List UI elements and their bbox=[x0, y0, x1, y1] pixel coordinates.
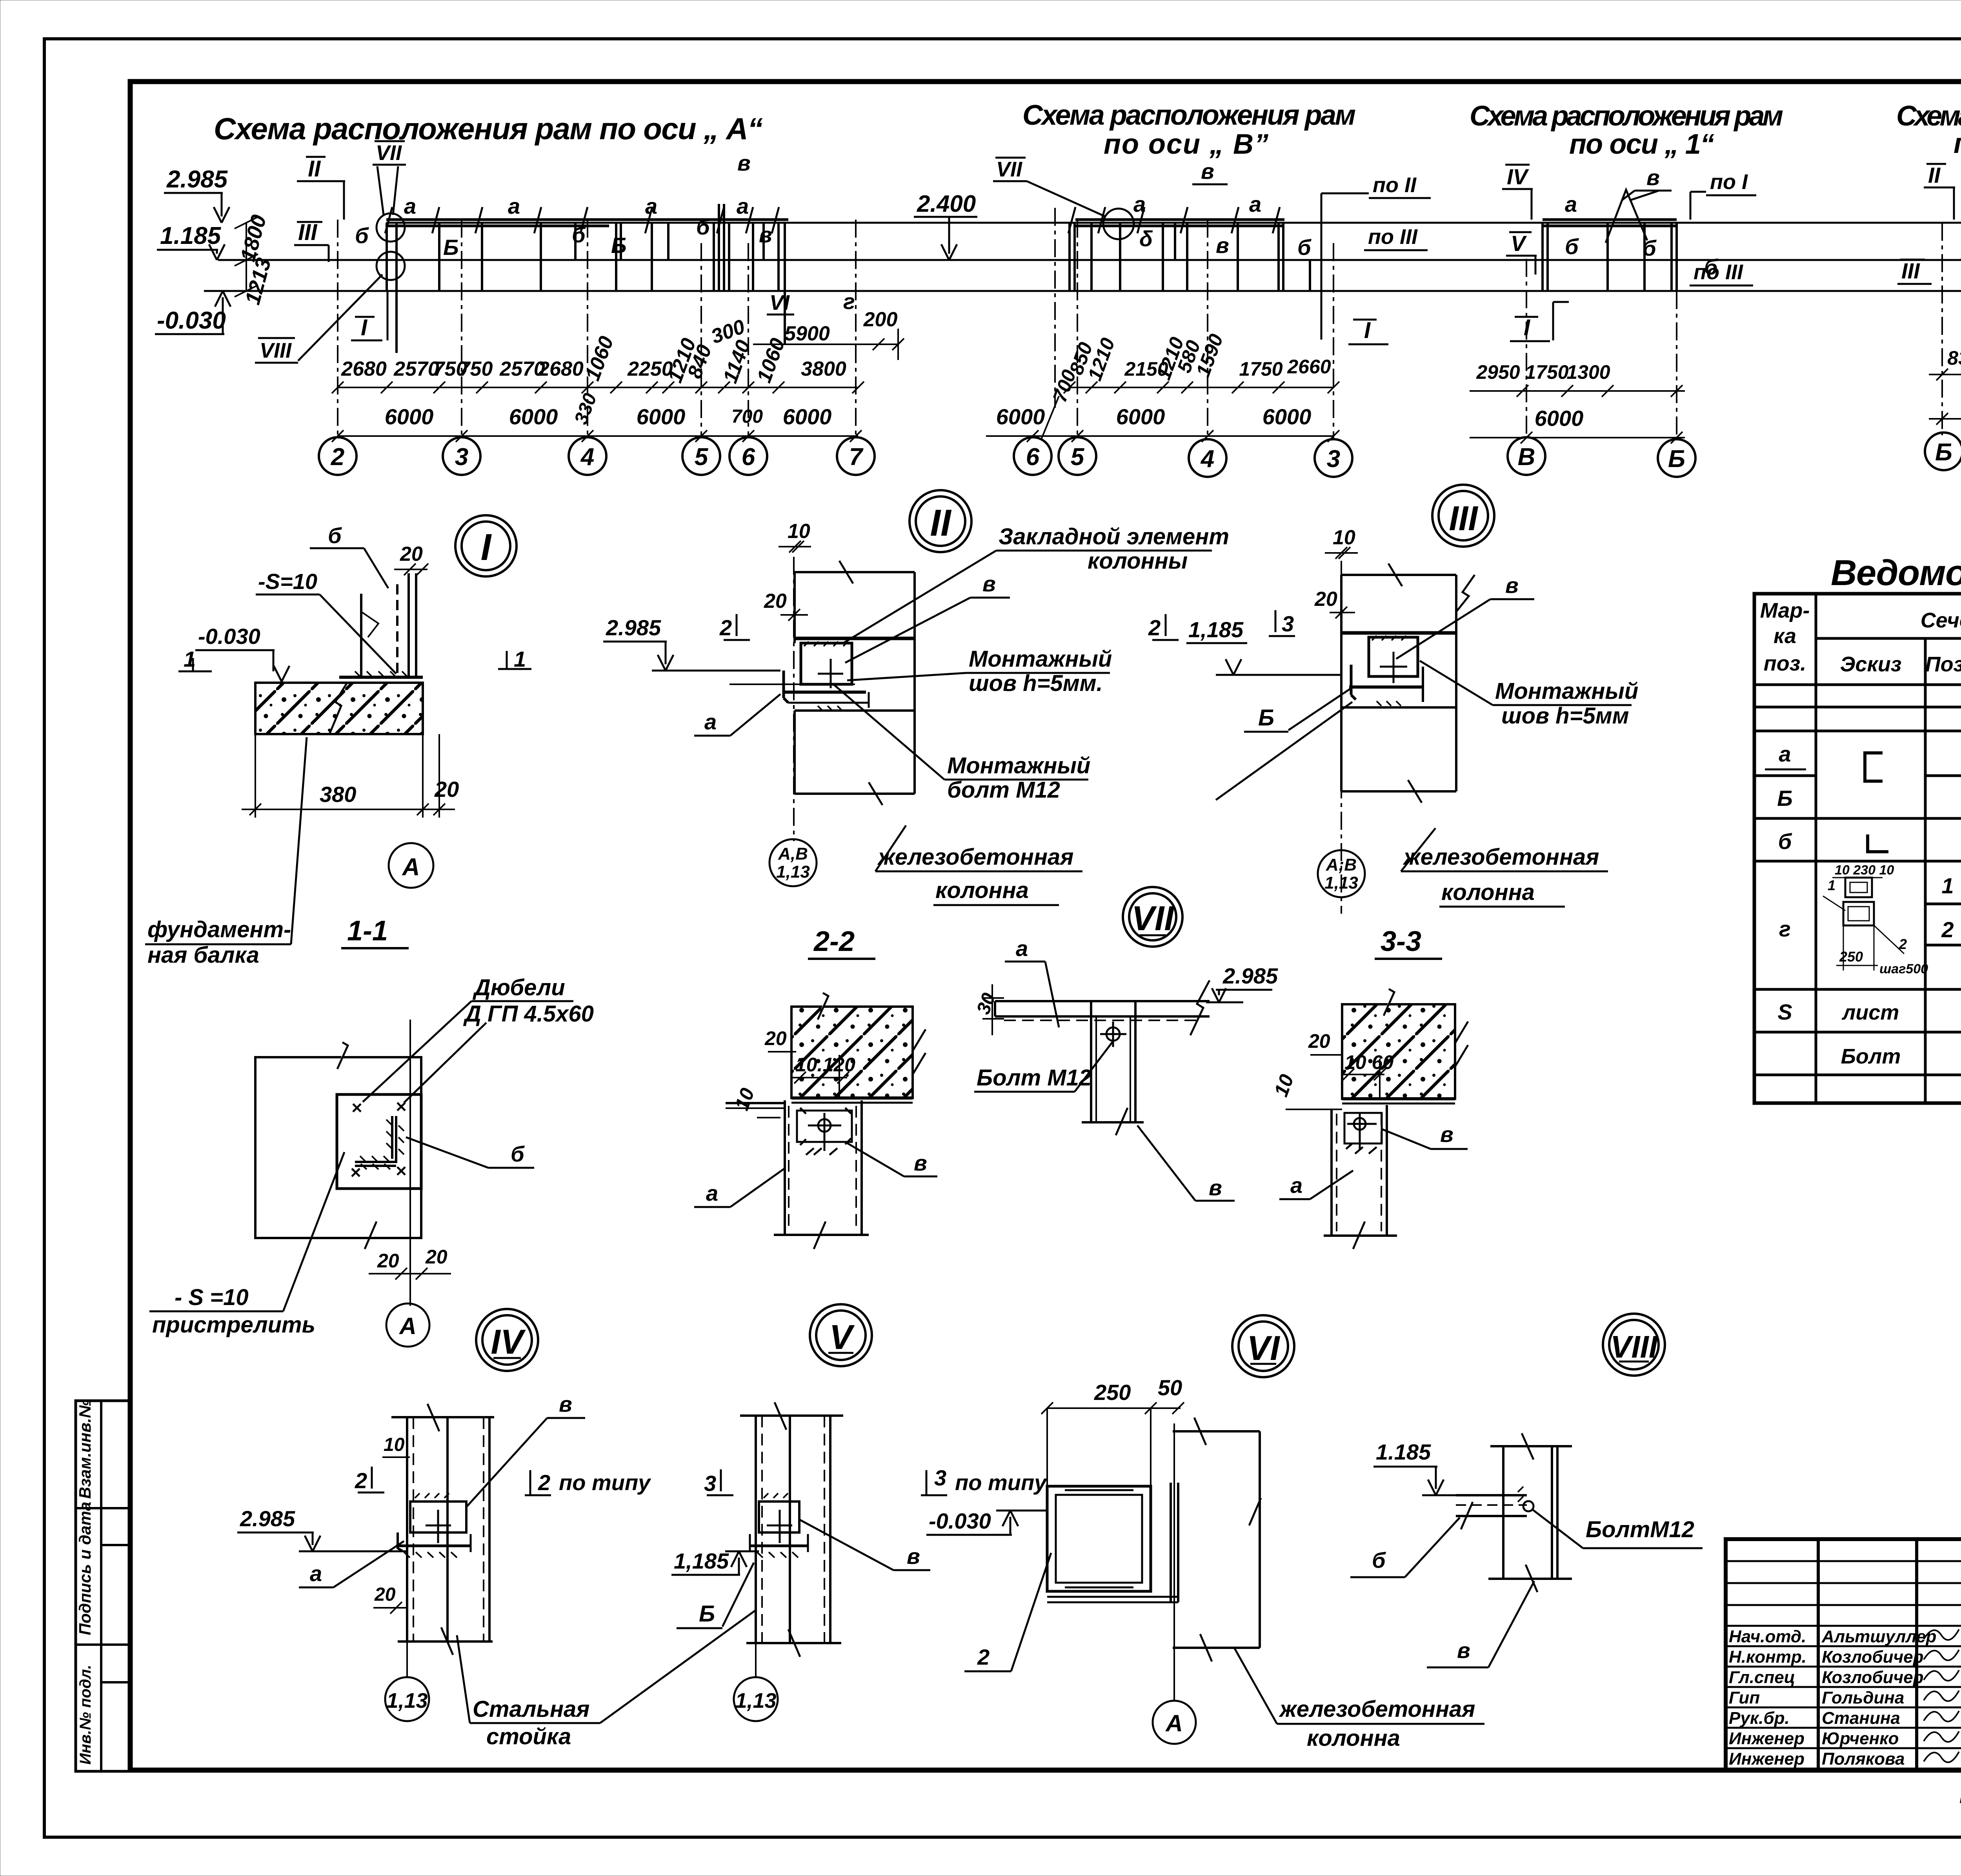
section 3-3 label в bbox=[1383, 1122, 1468, 1149]
svg-text:20: 20 bbox=[377, 1250, 399, 1272]
scheme A member letters bbox=[355, 151, 855, 314]
svg-text:колонна: колонна bbox=[935, 878, 1029, 903]
label железобетонная колонна (node VI) bbox=[1234, 1648, 1484, 1751]
svg-text:шов h=5мм: шов h=5мм bbox=[1501, 703, 1629, 729]
svg-text:1: 1 bbox=[1828, 877, 1835, 893]
svg-text:в: в bbox=[1440, 1122, 1453, 1147]
node VI angle at right bbox=[1047, 1483, 1178, 1602]
svg-text:Нач.отд.: Нач.отд. bbox=[1729, 1627, 1806, 1646]
node VI axis line + bubble A bbox=[1153, 1423, 1196, 1744]
svg-text:IV: IV bbox=[1507, 164, 1530, 189]
svg-text:б: б bbox=[1778, 829, 1792, 854]
scheme B dim row 2 bbox=[986, 404, 1339, 442]
svg-text:А;В: А;В bbox=[1326, 855, 1357, 874]
svg-text:б: б bbox=[1372, 1548, 1386, 1572]
svg-text:Козлобичер: Козлобичер bbox=[1822, 1647, 1924, 1667]
svg-text:I: I bbox=[361, 315, 368, 340]
svg-text:6: 6 bbox=[742, 444, 755, 471]
node IV marker circle bbox=[476, 1309, 538, 1371]
svg-text:6000: 6000 bbox=[637, 404, 686, 429]
svg-text:-0.030: -0.030 bbox=[929, 1509, 991, 1533]
scheme 1 mark по III bbox=[1690, 260, 1753, 285]
label Стальная стойка bbox=[457, 1610, 756, 1749]
svg-text:а: а bbox=[508, 194, 520, 218]
svg-text:20: 20 bbox=[1314, 588, 1337, 611]
svg-text:2570: 2570 bbox=[393, 358, 439, 380]
svg-text:ка: ка bbox=[1774, 624, 1796, 648]
svg-text:2: 2 bbox=[1941, 917, 1954, 942]
svg-text:в: в bbox=[907, 1544, 920, 1569]
node III bubble A;B 1,13 bbox=[1318, 850, 1365, 897]
svg-text:Схема расположения рам: Схема расположения рам bbox=[1022, 100, 1356, 131]
node III label Б bbox=[1244, 688, 1351, 732]
node VI label 2 bbox=[964, 1553, 1051, 1671]
svg-text:2.985: 2.985 bbox=[1222, 963, 1278, 988]
node IV elevation 2.985 bbox=[237, 1506, 407, 1551]
svg-text:Сечения: Сечения bbox=[1921, 609, 1961, 632]
node II label Закладной элемент колонны bbox=[843, 524, 1229, 643]
svg-text:3: 3 bbox=[934, 1465, 946, 1490]
svg-text:20: 20 bbox=[425, 1246, 448, 1268]
scheme 1 mark по I bbox=[1690, 170, 1756, 220]
svg-text:железобетонная: железобетонная bbox=[1403, 844, 1599, 870]
svg-text:-0.030: -0.030 bbox=[198, 624, 260, 649]
node VIII elevation 1.185 bbox=[1373, 1440, 1456, 1495]
svg-text:А: А bbox=[1165, 1710, 1182, 1736]
scheme A node circles VII/VIII bbox=[377, 213, 405, 242]
svg-text:колонна: колонна bbox=[1307, 1725, 1400, 1751]
scheme 1 mark I bbox=[1510, 302, 1569, 341]
svg-text:лист: лист bbox=[1841, 1001, 1899, 1024]
svg-text:III: III bbox=[1449, 499, 1478, 538]
svg-text:5900: 5900 bbox=[784, 322, 830, 345]
plate detail label -S=10 пристрелить bbox=[149, 1152, 344, 1338]
svg-text:2.985: 2.985 bbox=[606, 615, 661, 640]
scheme 1 posts bbox=[1543, 223, 1677, 291]
axis mark III bbox=[294, 220, 329, 262]
node III section label 3-3 bbox=[1375, 926, 1442, 959]
section 2-2 label в bbox=[847, 1143, 937, 1176]
node VI column lines right bbox=[1173, 1418, 1261, 1661]
node II section label 2-2 bbox=[808, 926, 875, 959]
svg-text:1060: 1060 bbox=[753, 335, 789, 386]
axis mark VI bbox=[767, 291, 794, 314]
svg-text:3: 3 bbox=[1282, 611, 1294, 636]
svg-text:700: 700 bbox=[731, 406, 763, 427]
node V column bbox=[740, 1402, 843, 1657]
node VII detail beam bbox=[995, 980, 1210, 1035]
svg-text:а: а bbox=[1779, 742, 1791, 766]
svg-text:по оси „ 13”: по оси „ 13” bbox=[1954, 128, 1961, 159]
node II label в bbox=[845, 571, 1010, 663]
svg-text:50: 50 bbox=[1158, 1375, 1182, 1400]
node II label Монтажный шов bbox=[847, 646, 1112, 696]
svg-text:4: 4 bbox=[580, 444, 594, 471]
svg-text:в: в bbox=[914, 1151, 927, 1175]
svg-text:болт М12: болт М12 bbox=[947, 777, 1060, 803]
node V section mark 3 bbox=[704, 1469, 733, 1496]
node IV label в bbox=[467, 1392, 585, 1507]
scheme A dim row 2 bbox=[332, 391, 862, 442]
node VI marker circle bbox=[1232, 1315, 1294, 1377]
scheme B section mark I bbox=[1348, 318, 1388, 344]
svg-text:VI: VI bbox=[1247, 1329, 1280, 1367]
svg-text:по оси „ В”: по оси „ В” bbox=[1104, 129, 1268, 160]
svg-text:поз.: поз. bbox=[1764, 652, 1806, 675]
plate detail inner plate bbox=[337, 1094, 421, 1189]
node IV mark 2 по типу bbox=[525, 1470, 651, 1495]
svg-text:1,185: 1,185 bbox=[1188, 617, 1244, 642]
svg-text:II: II bbox=[1928, 163, 1941, 187]
scheme 13 dim row 1 bbox=[1929, 345, 1961, 380]
svg-text:фундамент-: фундамент- bbox=[147, 917, 291, 942]
svg-text:Монтажный: Монтажный bbox=[1495, 678, 1638, 704]
node IV column bbox=[391, 1404, 494, 1655]
svg-text:Мар-: Мар- bbox=[1760, 599, 1810, 622]
svg-text:Монтажный: Монтажный bbox=[969, 646, 1112, 672]
scheme A axis bubbles bbox=[319, 437, 875, 475]
svg-text:железобетонная: железобетонная bbox=[1279, 1696, 1475, 1722]
node VII label Болт М12 bbox=[974, 1041, 1113, 1092]
svg-text:В: В bbox=[1518, 444, 1535, 471]
node III section marks 2 1,185 3 bbox=[1148, 610, 1295, 643]
svg-text:20: 20 bbox=[400, 543, 423, 565]
svg-text:г: г bbox=[843, 289, 855, 314]
table headers bbox=[1760, 599, 1961, 676]
svg-text:Б: Б bbox=[1258, 705, 1274, 731]
svg-text:а: а bbox=[404, 194, 416, 218]
svg-text:- S =10: - S =10 bbox=[175, 1285, 249, 1310]
svg-text:2: 2 bbox=[331, 444, 344, 471]
svg-text:А,В: А,В bbox=[778, 844, 808, 863]
scheme 1 gable element bbox=[1606, 190, 1647, 243]
svg-text:VII: VII bbox=[996, 158, 1022, 181]
svg-text:Взам.инв.№: Взам.инв.№ bbox=[76, 1399, 94, 1499]
section 2-2 concrete slab bbox=[791, 973, 926, 1103]
scheme 13 mark II bbox=[1924, 163, 1955, 220]
svg-text:по типу: по типу bbox=[559, 1470, 651, 1495]
svg-text:а: а bbox=[704, 709, 717, 734]
level line top (el.2.985) bbox=[386, 222, 1961, 224]
svg-text:Д ГП 4.5х60: Д ГП 4.5х60 bbox=[463, 1001, 594, 1027]
svg-text:б: б bbox=[696, 215, 710, 239]
label железобетонная колонна (node II) bbox=[875, 825, 1082, 905]
node I label а (lower right) bbox=[694, 694, 780, 736]
svg-text:Гольдина: Гольдина bbox=[1822, 1688, 1904, 1707]
svg-text:по типу: по типу bbox=[955, 1470, 1048, 1495]
svg-text:IV: IV bbox=[491, 1322, 526, 1361]
svg-text:5: 5 bbox=[695, 444, 709, 471]
node V label Б bbox=[677, 1563, 754, 1628]
svg-text:Инв.№ подл.: Инв.№ подл. bbox=[77, 1665, 94, 1765]
node VII bolt bbox=[1100, 1022, 1126, 1047]
svg-text:Коп. Доценко: Коп. Доценко bbox=[1959, 1784, 1961, 1808]
node V embed plate bbox=[750, 1493, 808, 1558]
svg-text:6000: 6000 bbox=[783, 404, 832, 429]
scheme A axis lines dash-dot bbox=[338, 220, 856, 437]
title block staff roles bbox=[1729, 1627, 1806, 1769]
svg-text:Инженер: Инженер bbox=[1729, 1749, 1805, 1769]
svg-text:Ведомость элементов: Ведомость элементов bbox=[1831, 553, 1961, 593]
svg-text:2-2: 2-2 bbox=[813, 926, 855, 957]
section 2-2 corner angle with bolt bbox=[797, 1108, 852, 1155]
svg-text:1,13: 1,13 bbox=[735, 1689, 776, 1712]
svg-text:б: б bbox=[1704, 254, 1718, 279]
svg-text:3-3: 3-3 bbox=[1381, 926, 1421, 957]
svg-text:Козлобичер: Козлобичер bbox=[1822, 1668, 1924, 1687]
svg-text:20: 20 bbox=[374, 1584, 396, 1605]
svg-text:10: 10 bbox=[788, 520, 810, 543]
svg-text:330: 330 bbox=[571, 391, 601, 427]
svg-text:по II: по II bbox=[1373, 173, 1417, 197]
elevation mark 1.185 scheme A bbox=[157, 222, 225, 260]
scheme B posts bbox=[1070, 223, 1310, 291]
svg-text:6000: 6000 bbox=[509, 404, 558, 429]
svg-text:б: б bbox=[1297, 235, 1312, 260]
svg-text:Б: Б bbox=[1777, 786, 1793, 811]
svg-text:шов h=5мм.: шов h=5мм. bbox=[969, 671, 1103, 696]
svg-text:колонна: колонна bbox=[1441, 880, 1535, 905]
node II axis dash-dot bbox=[793, 557, 795, 841]
scheme 1 dim row 2 bbox=[1470, 406, 1685, 444]
node VI elevation -0.030 bbox=[926, 1509, 1047, 1535]
scheme 13 letters bbox=[1960, 192, 1961, 264]
svg-text:VIII: VIII bbox=[260, 339, 292, 362]
node I elevation 2.985 right bbox=[603, 615, 780, 671]
svg-text:750: 750 bbox=[459, 358, 493, 380]
svg-text:пристрелить: пристрелить bbox=[152, 1312, 315, 1338]
svg-text:Болт: Болт bbox=[1841, 1045, 1901, 1068]
svg-text:б: б bbox=[1643, 236, 1657, 260]
svg-text:Юрченко: Юрченко bbox=[1822, 1729, 1899, 1748]
svg-text:А: А bbox=[402, 854, 420, 881]
node IV dim 20 bbox=[373, 1584, 408, 1614]
node VII dim 30 bbox=[973, 984, 1004, 1035]
svg-text:а: а bbox=[737, 194, 749, 218]
svg-text:10 230 10: 10 230 10 bbox=[1835, 863, 1894, 878]
svg-text:в: в bbox=[737, 151, 751, 175]
node I section label 1-1 bbox=[341, 915, 409, 948]
svg-text:а: а bbox=[1565, 192, 1577, 216]
svg-text:ная балка: ная балка bbox=[147, 942, 259, 968]
svg-text:20: 20 bbox=[764, 590, 787, 613]
svg-text:по III: по III bbox=[1694, 260, 1743, 284]
table sketches column bbox=[1841, 753, 1901, 1068]
node VIII column bbox=[1488, 1433, 1572, 1592]
node I marker circle bbox=[455, 515, 517, 576]
svg-text:Монтажный: Монтажный bbox=[947, 753, 1090, 778]
svg-text:Схема расположения рам: Схема расположения рам bbox=[1896, 100, 1961, 132]
svg-text:а: а bbox=[645, 194, 657, 218]
svg-text:БолтМ12: БолтМ12 bbox=[1586, 1517, 1694, 1542]
label железобетонная колонна (node III) bbox=[1401, 828, 1608, 907]
svg-text:2: 2 bbox=[538, 1470, 550, 1495]
svg-text:Инженер: Инженер bbox=[1729, 1729, 1805, 1748]
svg-text:в: в bbox=[1505, 573, 1519, 598]
svg-text:4: 4 bbox=[1200, 445, 1214, 473]
scheme 1 mark в with leaders bbox=[1622, 165, 1672, 200]
section 2-2 dims 20 / 10.120 bbox=[731, 1027, 855, 1118]
svg-text:6000: 6000 bbox=[1262, 404, 1312, 429]
svg-text:2.400: 2.400 bbox=[917, 191, 976, 217]
node II label Монтажный болт М12 bbox=[833, 684, 1090, 803]
svg-text:по I: по I bbox=[1710, 170, 1748, 194]
svg-text:в: в bbox=[559, 1392, 572, 1416]
node II dim 10 bbox=[779, 520, 811, 553]
svg-text:1750: 1750 bbox=[1239, 358, 1282, 380]
svg-text:б: б bbox=[355, 223, 369, 248]
svg-text:железобетонная: железобетонная bbox=[877, 844, 1073, 870]
elevation mark 2.985 scheme A bbox=[164, 166, 229, 223]
svg-text:б: б bbox=[572, 222, 586, 247]
svg-text:-S=10: -S=10 bbox=[258, 569, 317, 594]
node IV bubble 1,13 bbox=[385, 1641, 429, 1721]
title block staff names bbox=[1821, 1627, 1936, 1769]
svg-text:2: 2 bbox=[1148, 615, 1161, 640]
svg-text:Стальная: Стальная bbox=[473, 1696, 589, 1722]
node IV dim 10 bbox=[382, 1434, 410, 1457]
svg-text:2.985: 2.985 bbox=[166, 166, 228, 193]
svg-text:1,185: 1,185 bbox=[674, 1549, 729, 1573]
svg-text:20: 20 bbox=[1308, 1030, 1330, 1052]
svg-text:шаг500: шаг500 bbox=[1879, 962, 1928, 976]
svg-text:VII: VII bbox=[1131, 899, 1174, 938]
svg-text:2: 2 bbox=[719, 615, 732, 640]
svg-text:-0.030: -0.030 bbox=[157, 307, 226, 334]
node V marker circle bbox=[810, 1304, 872, 1366]
node III angle connection bbox=[1349, 636, 1424, 706]
section 2-2 label а bbox=[694, 1169, 784, 1207]
svg-text:Закладной элемент: Закладной элемент bbox=[999, 524, 1229, 549]
scheme 13 axis bubbles bbox=[1925, 431, 1961, 470]
svg-text:в: в bbox=[1209, 1175, 1222, 1200]
axis mark I bbox=[351, 291, 387, 340]
node III elevation line bbox=[1216, 659, 1341, 675]
svg-text:в: в bbox=[759, 222, 772, 247]
svg-text:V: V bbox=[1511, 231, 1527, 256]
scheme A posts bbox=[387, 204, 785, 353]
node VIII beam bbox=[1456, 1487, 1527, 1529]
svg-text:3: 3 bbox=[455, 444, 468, 471]
svg-text:а: а bbox=[1290, 1173, 1302, 1198]
svg-text:250: 250 bbox=[1839, 949, 1863, 965]
node IV section mark 2 bbox=[355, 1467, 384, 1493]
axis mark VIII bbox=[255, 274, 382, 363]
left attribute strip bbox=[76, 1399, 130, 1771]
svg-text:Б: Б bbox=[1935, 439, 1952, 466]
svg-text:а: а bbox=[1133, 192, 1146, 216]
elevation mark 2.400 bbox=[914, 191, 977, 260]
svg-text:380: 380 bbox=[320, 782, 356, 807]
section 3-3 label а bbox=[1279, 1171, 1353, 1199]
scheme 1 axis bubbles bbox=[1508, 437, 1695, 477]
scheme A top chord beam bbox=[385, 207, 788, 233]
svg-text:Гл.спец: Гл.спец bbox=[1729, 1668, 1795, 1687]
svg-text:10: 10 bbox=[1333, 526, 1355, 549]
scheme 1 beam bbox=[1543, 220, 1677, 226]
svg-text:по оси „ 1“: по оси „ 1“ bbox=[1569, 129, 1714, 160]
table row marks bbox=[1765, 742, 1806, 1024]
svg-text:III: III bbox=[1901, 258, 1920, 283]
svg-text:S: S bbox=[1777, 1000, 1792, 1024]
node VI dims 250 50 bbox=[1041, 1375, 1184, 1486]
svg-text:2: 2 bbox=[977, 1645, 990, 1669]
label фундаментная балка bbox=[145, 737, 307, 968]
scheme 13 mark III bbox=[1897, 258, 1932, 284]
svg-text:20: 20 bbox=[764, 1027, 787, 1049]
svg-text:по III: по III bbox=[1368, 225, 1418, 249]
svg-text:7: 7 bbox=[849, 444, 864, 471]
svg-text:6000: 6000 bbox=[1116, 404, 1165, 429]
svg-text:Станина: Станина bbox=[1822, 1709, 1900, 1728]
svg-text:6: 6 bbox=[1026, 444, 1040, 471]
svg-text:1300: 1300 bbox=[1566, 361, 1610, 383]
scheme B mark VII bbox=[993, 158, 1105, 216]
svg-text:VI: VI bbox=[769, 291, 790, 314]
svg-text:Н.контр.: Н.контр. bbox=[1729, 1647, 1806, 1667]
svg-text:10: 10 bbox=[1270, 1071, 1298, 1100]
svg-text:1,13: 1,13 bbox=[1324, 873, 1358, 893]
svg-text:VIII: VIII bbox=[1610, 1329, 1658, 1364]
svg-text:Б: Б bbox=[699, 1601, 715, 1627]
svg-text:6000: 6000 bbox=[996, 404, 1045, 429]
svg-text:2950: 2950 bbox=[1476, 361, 1520, 383]
node VI box section bbox=[1047, 1486, 1151, 1591]
node IV embed plate bbox=[396, 1493, 471, 1558]
svg-text:6000: 6000 bbox=[1535, 406, 1584, 431]
svg-text:10: 10 bbox=[731, 1085, 759, 1113]
svg-text:1750: 1750 bbox=[1525, 361, 1568, 383]
node II marker circle bbox=[910, 490, 971, 552]
node VII marker circle bbox=[1123, 887, 1182, 947]
svg-text:а: а bbox=[1249, 192, 1261, 216]
elevation mark -0.030 scheme A bbox=[155, 291, 231, 334]
svg-text:I: I bbox=[1524, 315, 1531, 340]
svg-text:а: а bbox=[1016, 936, 1028, 961]
node II column outline bbox=[795, 561, 915, 805]
svg-text:б: б bbox=[328, 523, 342, 548]
node VIII label в bbox=[1427, 1581, 1534, 1667]
svg-text:в: в bbox=[1201, 159, 1214, 184]
svg-text:1,13: 1,13 bbox=[386, 1689, 427, 1712]
svg-text:Гип: Гип bbox=[1729, 1688, 1760, 1707]
title block frame bbox=[1726, 1539, 1961, 1771]
plate detail welded angle bbox=[355, 1116, 404, 1169]
node I label -S=10 bbox=[256, 569, 396, 674]
svg-text:VII: VII bbox=[376, 141, 402, 165]
node IV label а bbox=[299, 1541, 404, 1587]
svg-text:20: 20 bbox=[434, 777, 459, 802]
svg-text:200: 200 bbox=[863, 308, 898, 331]
svg-text:Б: Б bbox=[611, 233, 627, 258]
svg-text:в: в bbox=[982, 571, 996, 596]
node VII label a bbox=[1005, 936, 1059, 1027]
node III dim 10 bbox=[1325, 526, 1358, 559]
svg-text:3800: 3800 bbox=[801, 358, 846, 380]
plate detail axis line bbox=[409, 1020, 411, 1306]
node III marker circle bbox=[1432, 485, 1494, 547]
scheme 1 letters bbox=[1565, 192, 1718, 279]
svg-text:5: 5 bbox=[1071, 444, 1085, 471]
svg-text:10: 10 bbox=[384, 1434, 405, 1455]
node V bubble 1,13 bbox=[734, 1643, 778, 1721]
svg-text:250: 250 bbox=[1094, 1380, 1131, 1405]
svg-text:А: А bbox=[398, 1313, 416, 1339]
plate detail big square bbox=[255, 1022, 421, 1249]
plate detail dims 20 20 bbox=[369, 1246, 451, 1280]
svg-text:III: III bbox=[298, 220, 318, 245]
scheme B axis bubbles bbox=[1014, 396, 1352, 477]
